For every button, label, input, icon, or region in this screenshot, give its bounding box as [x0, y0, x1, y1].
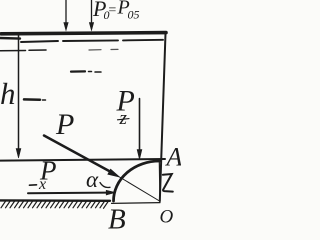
P resultant arrow (thick diagonal) — [44, 136, 120, 178]
surface level tick at h top — [0, 49, 118, 50]
svg-text:05: 05 — [128, 8, 140, 22]
right wall — [160, 34, 166, 202]
Pz arrow (vertical) — [137, 99, 142, 160]
water dashes mid tank — [24, 71, 101, 100]
dash left of x — [30, 184, 37, 186]
Pz label — [116, 85, 135, 130]
arrow onto lid (left) — [64, 0, 68, 31]
z label — [163, 174, 173, 192]
svg-text:P: P — [55, 108, 74, 141]
tank lid (thick top line) — [1, 33, 166, 34]
svg-text:A: A — [165, 143, 182, 172]
ground hatching — [1, 201, 109, 209]
thin continuation of P line to arc centre — [120, 177, 160, 201]
svg-text:x: x — [38, 176, 46, 193]
label P0 = Pat — [92, 0, 140, 22]
thin base line B to O — [112, 202, 161, 205]
stroke through z subscript — [118, 119, 130, 120]
Px label — [38, 156, 57, 194]
svg-text:=: = — [108, 3, 117, 18]
svg-text:α: α — [86, 167, 99, 192]
svg-text:O: O — [160, 207, 174, 228]
svg-text:B: B — [108, 204, 126, 232]
Px arrow — [28, 190, 116, 195]
h dimension line with down arrow — [16, 35, 21, 158]
curved surface arc A-B — [114, 161, 160, 201]
svg-text:h: h — [0, 76, 16, 111]
arrow onto lid (right) — [89, 0, 93, 31]
free surface rough line — [0, 38, 163, 42]
alpha tail — [100, 183, 110, 188]
thin vertical line A to corner — [158, 161, 161, 202]
ground line — [0, 199, 110, 202]
tank bottom line (level of A) — [0, 159, 165, 161]
